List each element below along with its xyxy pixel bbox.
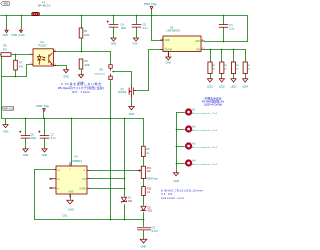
svg-text:PWR_Flag: PWR_Flag — [36, 104, 49, 108]
svg-text:CS: CS — [82, 178, 86, 181]
svg-text:15V: 15V — [128, 200, 133, 203]
phototransistor inside U2 — [49, 53, 52, 65]
mounting hole H4 — [186, 159, 217, 166]
global label -48S — [1, 2, 10, 6]
wire U4 left down — [34, 170, 36, 220]
wire pwr-flag stub A — [6, 16, 8, 29]
svg-text:GND: GND — [68, 209, 74, 212]
svg-text:2: 2 — [30, 63, 31, 65]
svg-text:GND: GND — [3, 34, 9, 37]
junction (15.5,54.5) — [15, 54, 17, 56]
note text center-left — [58, 82, 104, 94]
wire C9 leads — [143, 220, 145, 240]
wire H1 stub — [177, 112, 185, 114]
wire bottom -12V rail — [2, 118, 144, 120]
capacitor C5 — [132, 24, 148, 30]
svg-text:LED1: LED1 — [207, 86, 213, 88]
svg-text:HV9861A: HV9861A — [71, 159, 82, 163]
junction (124.5,188.5) — [124, 188, 126, 190]
junction (110.5,219.5) — [110, 219, 112, 221]
wire D1 to bottom node — [124, 205, 126, 220]
svg-text:2.2u: 2.2u — [229, 27, 234, 30]
svg-text:takosan.com: takosan.com — [161, 196, 185, 200]
title text bottom right — [161, 188, 203, 200]
diode D1 — [121, 197, 132, 203]
resistor R6 — [1, 44, 11, 56]
junction (110.5,118.5) — [110, 118, 112, 120]
wire R3 bottom lead — [233, 74, 235, 79]
wire R6 left lead — [1, 54, 2, 56]
svg-text:SW: SW — [196, 39, 201, 43]
wire top -48V rail — [1, 15, 248, 17]
resistor R3 — [231, 62, 239, 74]
no-connect X pins U4 — [50, 178, 52, 189]
junction (113.5,71.5) — [113, 71, 115, 73]
wire node A horizontal — [54, 51, 111, 53]
junction (81.5,15.5) — [81, 15, 83, 17]
ground below C7 — [42, 149, 48, 157]
junction (223.5,41.5) — [223, 41, 225, 43]
wire C7 leads — [44, 119, 46, 149]
ground below U4 — [67, 200, 74, 211]
svg-text:1: 1 — [30, 53, 31, 55]
svg-text:LED4: LED4 — [242, 86, 248, 88]
junction (25.5,118.5) — [25, 118, 27, 120]
wire H3 stub — [177, 146, 185, 148]
junction (21.5,15.5) — [21, 15, 23, 17]
wire mounting pad bus — [176, 113, 178, 173]
ground below U3 — [166, 57, 172, 65]
svg-text:100u: 100u — [31, 137, 37, 140]
note text right — [202, 96, 225, 106]
svg-text:GND: GND — [42, 154, 48, 157]
capacitor C4 — [107, 20, 127, 29]
svg-text:(LED=6.2V/9k): (LED=6.2V/9k) — [204, 102, 222, 106]
svg-text:PWR_Flag: PWR_Flag — [144, 2, 157, 6]
svg-text:SR-48C1S: SR-48C1S — [38, 3, 51, 7]
junction (210.5,49.5) — [210, 49, 212, 51]
ground at -12V rail start — [3, 119, 9, 134]
ground below C9 — [140, 239, 147, 248]
ground below mounting bus — [173, 173, 179, 183]
wire JP1 bottom long vertical — [110, 81, 112, 220]
resistor R2 — [220, 62, 228, 74]
pwr-flag bottom-left — [36, 104, 49, 111]
junction (124.5,118.5) — [124, 118, 126, 120]
inductor L1 — [32, 0, 51, 15]
wire D2 to bottom node — [143, 213, 145, 220]
wire U4 RT — [90, 188, 125, 190]
junction (143.5,219.5) — [143, 219, 145, 221]
resistor R7 — [14, 60, 24, 70]
ground below C6 — [23, 149, 29, 157]
junction (221.5,49.5) — [221, 49, 223, 51]
svg-text:R4: R4 — [248, 65, 250, 67]
optocoupler U2 — [31, 40, 56, 66]
wire R4 top lead — [245, 50, 247, 63]
svg-text:MountingHole_Pad: MountingHole_Pad — [192, 163, 218, 166]
wire R7 bottom lead — [15, 71, 17, 77]
wire rail corner down to R9 — [143, 119, 145, 146]
junction (151.5,15.5) — [151, 15, 153, 17]
junction (15.5,76.5) — [15, 76, 17, 78]
net flag LED2 — [219, 79, 225, 89]
wire D1 column vertical — [124, 119, 126, 197]
svg-text:GND: GND — [166, 62, 172, 65]
wire bottom sense rail — [35, 219, 144, 221]
resistor R1 — [208, 62, 216, 74]
wire R6 to U2 anode — [12, 54, 31, 56]
ground below C4 — [111, 38, 117, 46]
wire to U2 cathode — [27, 65, 31, 77]
svg-text:GND: GND — [23, 154, 29, 157]
net flag LED1 — [207, 79, 213, 89]
wire R5 top lead — [81, 16, 83, 29]
wire R8 bottom lead — [81, 70, 83, 75]
svg-text:GND: GND — [174, 180, 180, 183]
svg-text:U2: U2 — [40, 40, 44, 44]
wire R3 top lead — [233, 50, 235, 63]
ground below R8 — [78, 75, 84, 85]
wire U4 CS — [90, 178, 125, 180]
svg-text:470: 470 — [3, 49, 8, 52]
svg-text:SS1: SS1 — [148, 210, 153, 213]
junction (176.5,129.5) — [176, 129, 178, 131]
junction (81.5,51.5) — [81, 51, 83, 53]
wire right edge down — [247, 16, 249, 42]
IC U3 — [161, 26, 205, 57]
wire JP1 to Q1 gate — [113, 72, 132, 86]
svg-text:CS1: CS1 — [63, 215, 68, 218]
capacitor C3 — [219, 24, 235, 30]
resistor R9 — [142, 146, 151, 156]
junction (71.5,118.5) — [71, 118, 73, 120]
wire Q1 source to gnd — [131, 98, 133, 107]
mounting hole H2 — [186, 125, 217, 132]
wire U4 gnd stub — [70, 195, 72, 200]
svg-text:SolderJum: SolderJum — [95, 73, 106, 76]
svg-text:4.7u: 4.7u — [51, 137, 56, 140]
IC U4 — [50, 155, 90, 198]
junction (6.5,15.5) — [6, 15, 8, 17]
capacitor C9 — [137, 227, 158, 233]
wire R5 bottom lead to node A — [81, 39, 83, 52]
svg-text:GND: GND — [3, 131, 9, 134]
wire R1 top lead — [210, 50, 212, 63]
junction (113.5,15.5) — [113, 15, 115, 17]
svg-text:PWM Imp: PWM Imp — [146, 177, 158, 181]
svg-text:GND: GND — [111, 43, 117, 46]
wire U3 pin SW to right edge — [205, 41, 248, 43]
wire R4 bottom lead — [245, 74, 247, 79]
svg-text:1k: 1k — [248, 69, 250, 71]
ground below Q1 — [129, 107, 135, 117]
svg-text:-48S: -48S — [3, 2, 9, 6]
svg-text:100k: 100k — [84, 64, 90, 67]
svg-text:MountingHole_Pad: MountingHole_Pad — [192, 129, 218, 132]
transistor Q1 — [118, 86, 136, 98]
svg-text:MountingHole_Pad: MountingHole_Pad — [192, 112, 218, 115]
mounting hole H3 — [186, 142, 217, 149]
svg-text:0.47u: 0.47u — [152, 230, 159, 233]
svg-text:GND: GND — [141, 246, 147, 249]
wire H4 stub — [177, 163, 185, 165]
wire pwr-flag stub top — [151, 10, 153, 16]
wire R7 bottom node horizontal — [2, 76, 27, 78]
svg-text:RV1: RV1 — [147, 168, 152, 170]
svg-text:PC817: PC817 — [38, 44, 47, 48]
svg-text:GATE: GATE — [79, 187, 86, 190]
pwr-flag top — [144, 2, 157, 10]
wire C4 leads — [113, 16, 115, 38]
svg-text:JP1: JP1 — [99, 69, 104, 72]
wire Q2 to R10 — [143, 179, 145, 187]
solder jumper JP1 — [95, 65, 113, 80]
wire U3 gnd stub — [168, 52, 170, 57]
wire On/Off down to Q1 drain — [148, 50, 150, 91]
mounting hole H1 — [186, 108, 217, 115]
wire U4 VIN vertical — [71, 119, 73, 166]
diode D2 — [141, 206, 153, 212]
wire LED resistor bus — [205, 49, 246, 51]
svg-text:2N7002: 2N7002 — [118, 91, 127, 94]
wire R2 bottom lead — [221, 74, 223, 79]
wire C3 leads top right — [223, 16, 225, 42]
svg-text:MountingHole_Pad: MountingHole_Pad — [192, 146, 218, 149]
wire R1 bottom lead — [210, 74, 212, 79]
junction (124.5,178.5) — [124, 178, 126, 180]
junction (223.5,15.5) — [223, 15, 225, 17]
resistor R5 — [79, 28, 90, 38]
svg-text:100k: 100k — [84, 34, 90, 37]
svg-text:GND: GND — [129, 113, 135, 116]
junction (44.5,118.5) — [44, 118, 46, 120]
svg-text:U4: U4 — [74, 155, 78, 159]
svg-text:PWR-12V: PWR-12V — [2, 107, 14, 111]
svg-text:GND: GND — [63, 76, 69, 79]
junction (124.5,219.5) — [124, 219, 126, 221]
wire U4 pin left — [35, 169, 55, 171]
wire node A to JP1 — [110, 52, 112, 65]
svg-text:2.2u: 2.2u — [143, 27, 148, 30]
wire Q1 drain — [136, 89, 149, 91]
resistor R8 — [79, 59, 90, 69]
wire R2 top lead — [221, 50, 223, 63]
junction (233.5,49.5) — [233, 49, 235, 51]
wire U2 emitter to gnd — [54, 66, 67, 70]
junction (176.5,146.5) — [176, 146, 178, 148]
wire pwr-flag stub bottom-left — [43, 112, 45, 119]
svg-text:VDD: VDD — [164, 38, 170, 42]
wire R9 to Q2 — [143, 157, 145, 167]
wire left vertical — [1, 55, 3, 119]
resistor R4 — [243, 62, 251, 74]
net flag LED4 — [242, 79, 248, 89]
capacitor C6 — [19, 131, 37, 140]
capacitor C7 — [38, 131, 56, 140]
wire C6 leads — [25, 119, 27, 149]
svg-text:VSS: VSS — [132, 43, 137, 46]
svg-text:R5: 10kΩ: R5: 10kΩ — [73, 90, 90, 94]
svg-text:GND: GND — [68, 192, 73, 194]
ground below U2 emitter — [63, 70, 69, 79]
resistor R10 — [142, 187, 152, 196]
svg-text:4: 4 — [55, 50, 56, 52]
junction (136.5,15.5) — [136, 15, 138, 17]
wire C5 leads — [136, 16, 138, 38]
global label -12V — [1, 107, 14, 111]
pwr-flag A — [3, 29, 9, 38]
pwr-flag B — [12, 29, 25, 38]
svg-text:PWR_FLAG: PWR_FLAG — [12, 34, 25, 37]
junction (176.5,163.5) — [176, 163, 178, 165]
svg-text:LED2: LED2 — [219, 86, 225, 88]
wire U4 gate to Q2 — [90, 170, 139, 172]
wire VDD from rail to U3 — [152, 16, 163, 41]
svg-text:FB: FB — [196, 47, 200, 51]
wire R7 top lead — [15, 55, 17, 61]
svg-text:LED3: LED3 — [231, 86, 237, 88]
wire pwr-flag stub B — [21, 16, 23, 29]
svg-text:3: 3 — [55, 64, 56, 66]
svg-text:100u: 100u — [121, 27, 127, 30]
net flag LED3 — [231, 79, 237, 89]
wire H2 stub — [177, 129, 185, 131]
wire R10 to D2 — [143, 196, 145, 206]
potentiometer RV1 — [138, 166, 152, 178]
wire On/Off to U3 — [149, 49, 163, 51]
LED inside U2 — [37, 55, 41, 65]
ground below C5 — [132, 38, 138, 46]
svg-text:LNK306GN: LNK306GN — [166, 29, 179, 33]
